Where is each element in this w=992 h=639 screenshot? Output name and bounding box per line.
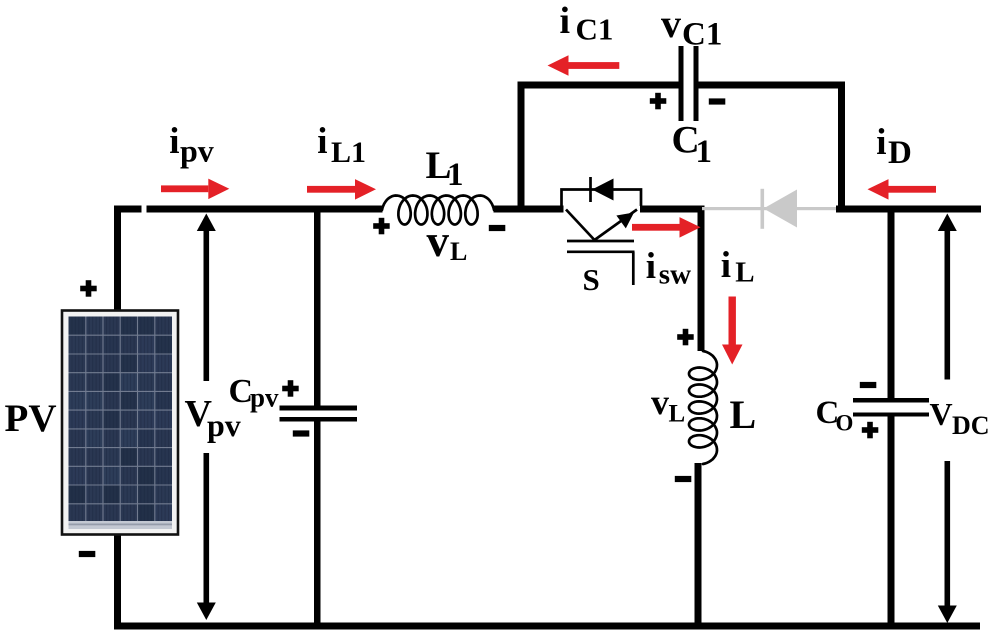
inductor L coil — [689, 351, 717, 464]
svg-text:i: i — [169, 121, 179, 162]
wire top rail right of diode — [836, 206, 981, 213]
Co minus sign — [860, 382, 877, 388]
wire Co branch lower — [888, 416, 895, 630]
wire top rail left segment B — [147, 206, 383, 213]
VDC measurement arrow upper — [938, 214, 957, 232]
wire top rail left segment A — [114, 206, 142, 213]
Vpv measurement arrow upper — [197, 214, 216, 232]
svg-text:O: O — [836, 411, 854, 436]
wire top rail between L1 and switch — [494, 206, 564, 213]
capacitor Cpv plates — [280, 406, 358, 411]
L1 plus sign — [373, 223, 390, 229]
Vpv measurement arrow lower — [204, 453, 210, 605]
diode D gray — [702, 207, 836, 210]
capacitor Co plates — [853, 398, 929, 403]
wire Co branch upper — [888, 208, 895, 399]
Cpv plus sign — [282, 386, 299, 392]
L1 minus sign — [489, 225, 506, 231]
arrow i_pv — [161, 185, 208, 192]
svg-text:i: i — [721, 245, 731, 286]
svg-text:L1: L1 — [331, 136, 366, 169]
svg-text:1: 1 — [447, 157, 464, 193]
switch body diode triangle — [592, 179, 614, 201]
svg-text:i: i — [646, 246, 656, 287]
svg-text:C1: C1 — [576, 12, 614, 47]
wire C1 loop top left segment — [518, 82, 679, 89]
svg-text:i: i — [876, 122, 886, 163]
PV plus sign — [80, 286, 97, 292]
VDC measurement arrow lower — [945, 461, 951, 608]
arrow i_D — [889, 186, 937, 193]
arrow i_L — [729, 297, 736, 345]
inductor L1 coil — [382, 196, 494, 225]
svg-text:pv: pv — [180, 133, 214, 169]
wire C1 loop right vertical — [838, 82, 845, 213]
svg-text:V: V — [930, 396, 953, 432]
wire switch node to inductor L — [698, 208, 705, 351]
arrow i_sw — [632, 224, 680, 231]
wire bottom rail — [114, 623, 980, 630]
svg-text:pv: pv — [207, 407, 241, 443]
Co plus sign — [862, 427, 879, 433]
arrow i_L1 — [307, 186, 355, 193]
svg-text:PV: PV — [5, 397, 57, 440]
PV minus sign — [79, 551, 96, 557]
svg-text:v: v — [427, 216, 450, 266]
svg-text:v: v — [661, 1, 681, 46]
wire Cpv branch lower — [314, 421, 321, 630]
svg-text:L: L — [450, 237, 467, 266]
svg-text:v: v — [651, 382, 669, 422]
svg-text:sw: sw — [659, 259, 691, 291]
svg-text:D: D — [888, 135, 912, 171]
Cpv minus sign — [293, 430, 310, 436]
C1 plus sign — [650, 98, 667, 104]
wire C1 loop left vertical — [518, 82, 525, 210]
wire Cpv branch upper — [314, 208, 321, 406]
svg-text:i: i — [317, 121, 327, 162]
switch arrow head — [616, 213, 634, 229]
svg-text:L: L — [730, 392, 757, 437]
L plus sign — [677, 334, 694, 340]
svg-text:L: L — [669, 401, 686, 428]
svg-text:i: i — [560, 0, 571, 42]
capacitor C1 plate right — [694, 46, 699, 121]
wire top rail between switch and node — [640, 206, 705, 213]
wire left vertical from rail to PV plus terminal — [114, 206, 121, 311]
transistor switch S — [562, 177, 642, 285]
arrow i_C1 — [569, 62, 620, 69]
svg-text:DC: DC — [952, 411, 990, 440]
svg-text:L: L — [735, 257, 754, 289]
wire inductor L to bottom rail — [695, 463, 702, 630]
wire C1 loop top right segment — [699, 82, 846, 89]
C1 minus sign — [709, 98, 726, 104]
wire PV minus terminal to bottom rail — [114, 534, 121, 626]
svg-text:1: 1 — [696, 134, 713, 170]
svg-text:S: S — [583, 262, 600, 297]
capacitor C1 plate left — [679, 46, 684, 121]
PV panel — [62, 311, 178, 535]
svg-text:C1: C1 — [682, 17, 722, 53]
svg-text:pv: pv — [250, 383, 279, 413]
L minus sign — [675, 476, 692, 482]
